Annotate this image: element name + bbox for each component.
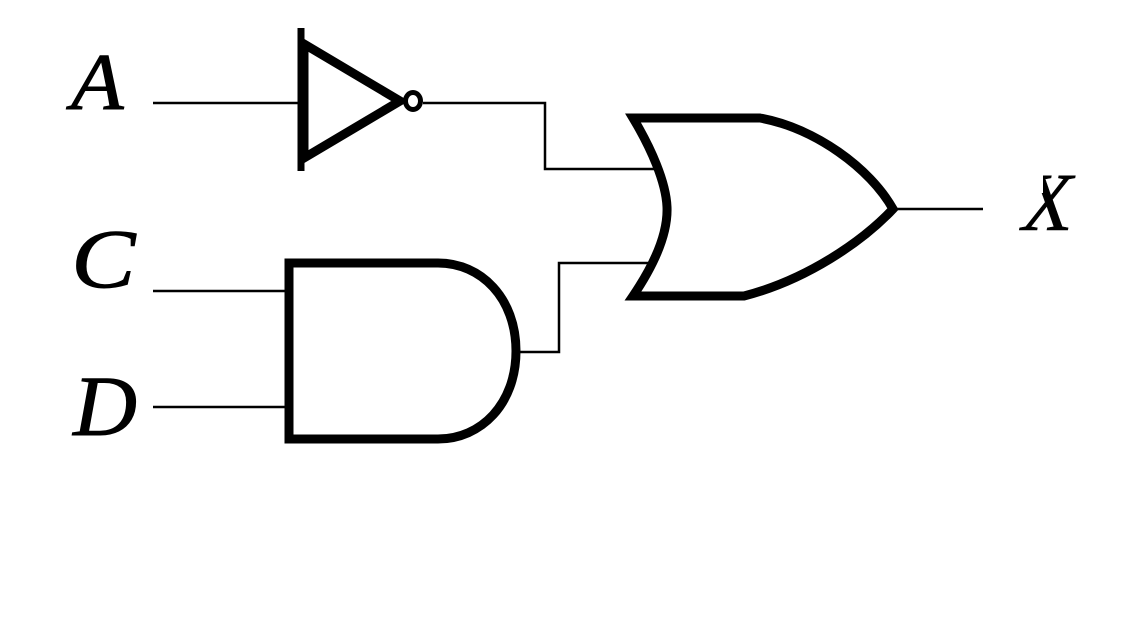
OR gate U3 xyxy=(633,118,893,296)
erosion patch on X (scan artifact) xyxy=(1013,171,1043,193)
wire OR output xyxy=(894,208,983,211)
wire A input xyxy=(153,102,301,105)
svg-text:A: A xyxy=(66,38,125,127)
inverter U1 bubble xyxy=(406,93,421,110)
wire inverter output to OR top input xyxy=(423,103,656,169)
inverter U1 input bar xyxy=(298,28,305,171)
svg-text:D: D xyxy=(72,358,137,454)
inverter U1 triangle xyxy=(304,44,400,158)
wire AND output to OR bottom input xyxy=(516,263,661,352)
wire C input xyxy=(153,290,289,293)
svg-text:C: C xyxy=(71,212,137,306)
AND gate U2 xyxy=(289,263,516,439)
svg-text:X: X xyxy=(1019,156,1076,248)
wire D input xyxy=(153,406,289,409)
